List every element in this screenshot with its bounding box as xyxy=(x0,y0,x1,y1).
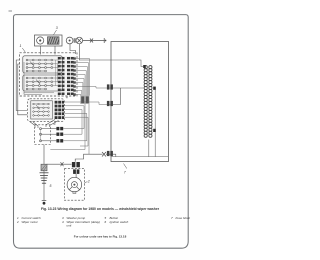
relay connector stack SD2 xyxy=(55,101,64,119)
edge connector E1 xyxy=(107,84,113,89)
wire: second feed joining xyxy=(111,88,121,105)
label 1 xyxy=(20,44,26,53)
wire: pump body down xyxy=(54,46,56,55)
combination switch S1 (dashed enclosure) xyxy=(20,53,78,96)
wire: left loop lower xyxy=(18,64,28,115)
wire: feed into strip top xyxy=(111,60,144,67)
connector pairs CP2 xyxy=(56,127,67,143)
legend column 3 xyxy=(105,216,129,224)
svg-text:4: 4 xyxy=(66,96,68,100)
switch wafer box b xyxy=(23,75,63,91)
edge connector E3 xyxy=(107,151,113,156)
label 7 xyxy=(124,164,127,175)
wiper motor M (two circles) xyxy=(66,37,82,44)
svg-text:5: 5 xyxy=(50,184,52,188)
label 2 xyxy=(84,180,90,184)
ignition switch S2 (dashed box) xyxy=(35,125,51,145)
wire: motor feed to right with inline connector xyxy=(83,38,107,43)
svg-text:Fig. 13.23 Wiring diagram for: Fig. 13.23 Wiring diagram for 1980 on mo… xyxy=(41,207,160,211)
svg-text:6: 6 xyxy=(54,122,56,126)
wire: motor to fuse box top xyxy=(79,44,111,60)
svg-text:Wiper motor: Wiper motor xyxy=(22,220,39,224)
svg-text:Ignition switch: Ignition switch xyxy=(110,220,129,224)
svg-text:Fuse block: Fuse block xyxy=(176,216,191,220)
wire: left loop upper xyxy=(16,60,27,111)
svg-text:2: 2 xyxy=(16,220,19,224)
connector stack CS1 xyxy=(58,57,74,95)
washer reservoir sender W (hatched box with level bars) xyxy=(40,164,49,204)
legend column 4 xyxy=(171,216,191,220)
connector cross X xyxy=(102,152,111,157)
label 3 xyxy=(54,26,58,35)
wire: connector up to fuse block xyxy=(75,154,102,162)
scan haze over relay assembly xyxy=(28,100,63,121)
harness comb wires xyxy=(50,57,111,154)
legend column 1 xyxy=(16,216,41,224)
strip bottom tail wire xyxy=(148,140,150,157)
page border frame xyxy=(14,15,189,249)
switch contact grid xyxy=(26,59,53,90)
svg-text:unit: unit xyxy=(67,223,72,227)
svg-text:1: 1 xyxy=(20,44,22,48)
wire: bottom feed inside fuse block xyxy=(111,154,116,156)
wire: pump down to switch assembly xyxy=(40,46,42,55)
terminal strip T (double column of rings) xyxy=(143,65,156,137)
switch lower link wires xyxy=(24,62,54,94)
wire: motor down-right xyxy=(70,44,76,54)
legend column 2 xyxy=(62,216,100,227)
relay inner body xyxy=(31,101,53,119)
wiper delay relay D2 (dashed box) xyxy=(27,99,64,122)
svg-text:Wiper intermittent (delay): Wiper intermittent (delay) xyxy=(67,220,100,224)
fuse block F (outer box) xyxy=(111,42,169,162)
scan haze over switch assembly xyxy=(22,56,76,95)
svg-text:For colour code see key to Fig: For colour code see key to Fig. 13.18 xyxy=(74,235,127,239)
bottom harness wire xyxy=(47,162,72,166)
wire: ignition box down to washer sender xyxy=(43,145,45,165)
wiper delay unit D (dashed box with motor) xyxy=(64,169,84,201)
wire: main feed to strip xyxy=(111,87,144,89)
corner tick mark xyxy=(9,10,13,12)
switch wafer box a xyxy=(23,56,63,73)
relay contacts xyxy=(33,103,50,116)
inline connector CI xyxy=(72,162,80,167)
edge connector E2 xyxy=(107,101,113,106)
svg-text:3: 3 xyxy=(56,26,58,30)
fuse block inner partition xyxy=(112,156,169,158)
wire: relay to ignition switch links xyxy=(30,120,59,129)
washer pump P (box with motor circle and hatched body) xyxy=(35,35,63,46)
